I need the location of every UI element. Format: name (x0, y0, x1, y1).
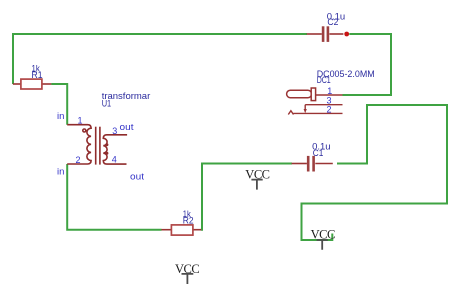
svg-text:C2: C2 (327, 17, 338, 28)
svg-text:C1: C1 (313, 148, 324, 159)
svg-text:2: 2 (76, 155, 81, 165)
svg-text:out: out (120, 122, 134, 133)
svg-text:1: 1 (327, 86, 332, 96)
svg-text:4: 4 (112, 155, 117, 165)
svg-text:2: 2 (327, 105, 332, 115)
svg-text:3: 3 (112, 126, 117, 136)
svg-text:R2: R2 (183, 215, 194, 226)
svg-text:U1: U1 (102, 99, 112, 110)
svg-text:DC1: DC1 (317, 75, 331, 86)
svg-text:in: in (57, 166, 64, 177)
svg-text:out: out (130, 172, 144, 183)
svg-text:in: in (57, 111, 64, 122)
svg-text:R1: R1 (32, 70, 43, 81)
svg-text:1: 1 (78, 116, 83, 126)
